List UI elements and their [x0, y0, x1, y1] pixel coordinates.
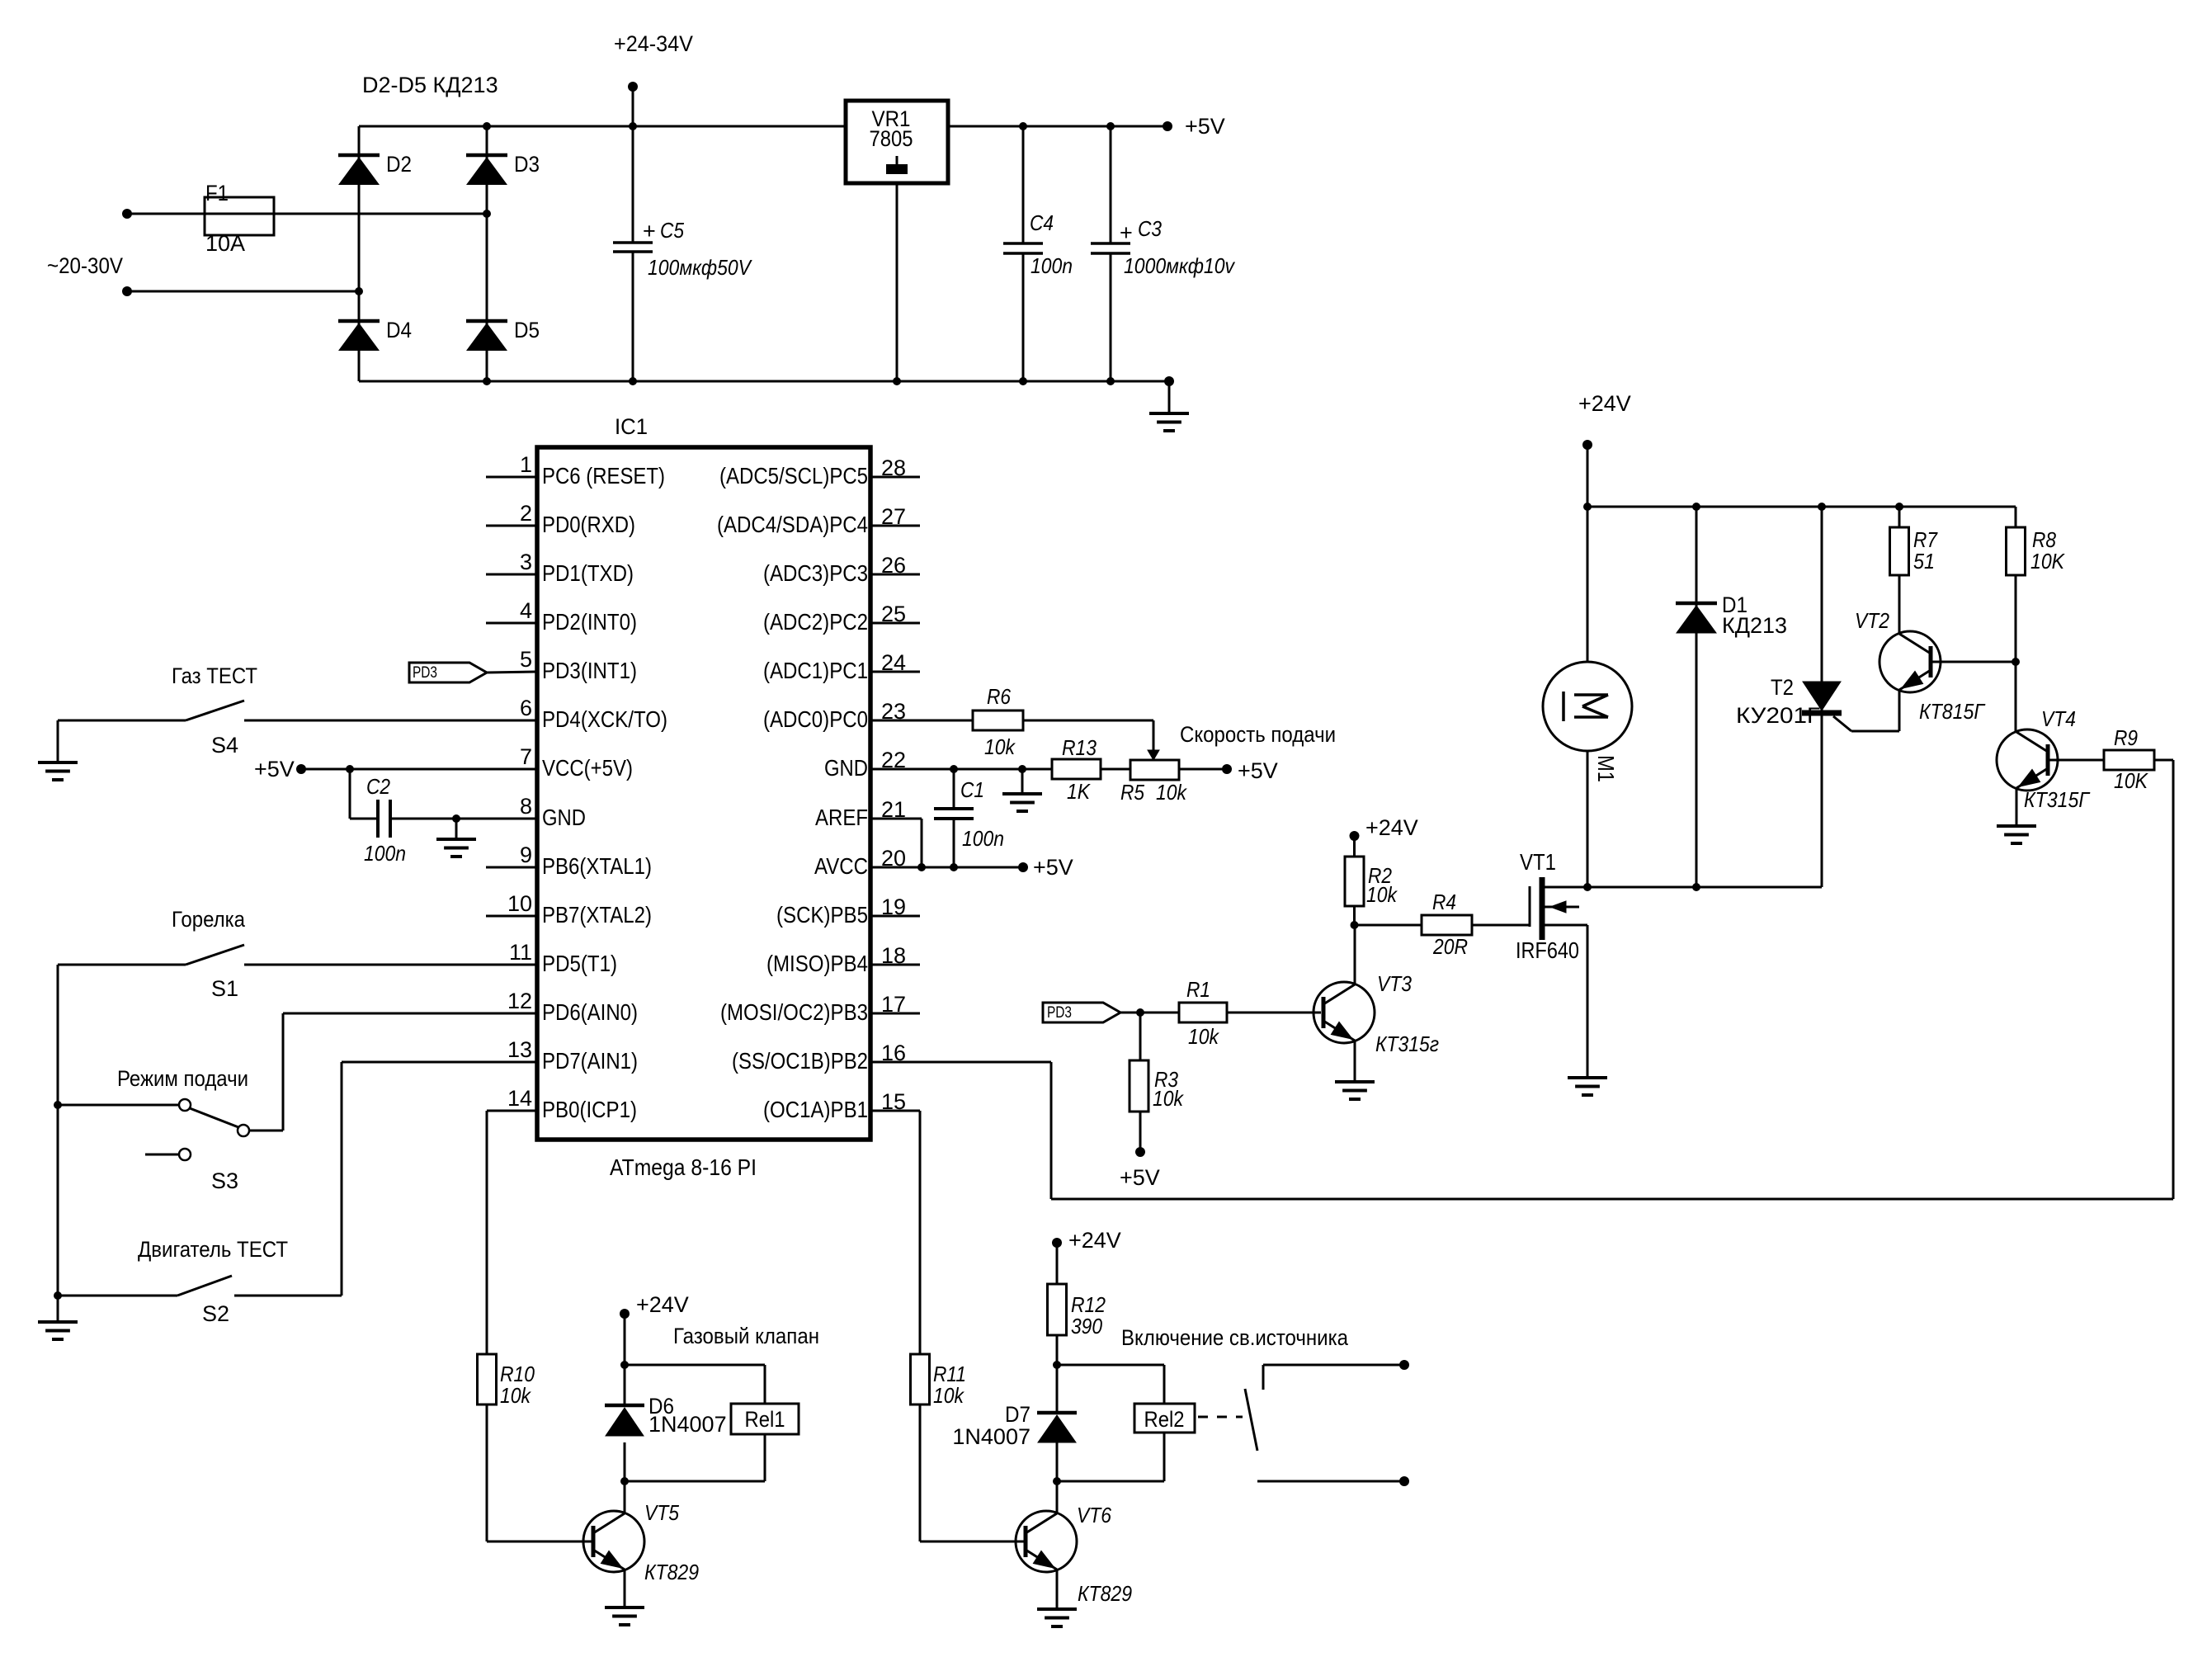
- svg-text:7: 7: [520, 744, 532, 769]
- svg-text:10k: 10k: [1188, 1024, 1220, 1049]
- svg-text:R5: R5: [1120, 780, 1144, 805]
- svg-text:S2: S2: [202, 1301, 229, 1326]
- svg-text:AVCC: AVCC: [814, 853, 868, 879]
- svg-text:10k: 10k: [1153, 1086, 1185, 1111]
- svg-text:F1: F1: [205, 181, 229, 205]
- svg-text:(MOSI/OC2)PB3: (MOSI/OC2)PB3: [720, 999, 868, 1025]
- svg-text:КТ829: КТ829: [1078, 1581, 1132, 1606]
- svg-text:PD2(INT0): PD2(INT0): [542, 609, 637, 635]
- svg-text:+24V: +24V: [1578, 391, 1631, 416]
- svg-text:(ADC1)PC1: (ADC1)PC1: [763, 658, 868, 683]
- svg-text:1: 1: [520, 452, 532, 477]
- svg-text:КТ315Г: КТ315Г: [2024, 787, 2091, 812]
- svg-text:+24-34V: +24-34V: [614, 31, 693, 56]
- svg-text:КУ201Г: КУ201Г: [1736, 703, 1820, 728]
- svg-text:PD3: PD3: [1047, 1004, 1072, 1022]
- svg-text:10k: 10k: [984, 734, 1016, 759]
- svg-text:Rel1: Rel1: [745, 1407, 785, 1432]
- svg-text:51: 51: [1913, 549, 1935, 574]
- svg-text:C1: C1: [960, 777, 984, 802]
- svg-text:VT2: VT2: [1855, 608, 1889, 633]
- svg-text:PD0(RXD): PD0(RXD): [542, 512, 635, 537]
- svg-text:PB6(XTAL1): PB6(XTAL1): [542, 853, 652, 879]
- svg-text:КТ815Г: КТ815Г: [1919, 699, 1986, 724]
- svg-text:AREF: AREF: [815, 805, 868, 830]
- svg-text:PB7(XTAL2): PB7(XTAL2): [542, 902, 652, 928]
- svg-text:КТ829: КТ829: [644, 1560, 699, 1584]
- svg-text:1N4007: 1N4007: [952, 1424, 1031, 1449]
- svg-text:20R: 20R: [1432, 934, 1468, 959]
- svg-text:S4: S4: [211, 733, 238, 758]
- svg-text:C2: C2: [366, 774, 390, 799]
- svg-text:Режим подачи: Режим подачи: [117, 1066, 248, 1091]
- svg-text:(ADC3)PC3: (ADC3)PC3: [763, 560, 868, 586]
- svg-text:4: 4: [520, 598, 532, 623]
- svg-text:C3: C3: [1138, 216, 1162, 241]
- svg-text:(OC1A)PB1: (OC1A)PB1: [763, 1097, 868, 1122]
- svg-text:100n: 100n: [364, 841, 406, 866]
- svg-text:+5V: +5V: [254, 757, 295, 781]
- svg-text:PC6 (RESET): PC6 (RESET): [542, 463, 665, 489]
- svg-text:VT6: VT6: [1077, 1503, 1111, 1527]
- svg-text:PD3: PD3: [413, 664, 437, 682]
- svg-text:390: 390: [1071, 1314, 1102, 1338]
- svg-text:(MISO)PB4: (MISO)PB4: [766, 951, 868, 976]
- svg-text:PD3(INT1): PD3(INT1): [542, 658, 637, 683]
- svg-text:R13: R13: [1062, 735, 1097, 760]
- svg-text:R9: R9: [2114, 725, 2138, 750]
- svg-text:(ADC4/SDA)PC4: (ADC4/SDA)PC4: [717, 512, 868, 537]
- svg-text:10k: 10k: [933, 1383, 965, 1408]
- svg-text:5: 5: [520, 647, 532, 672]
- svg-text:VT3: VT3: [1377, 971, 1412, 996]
- svg-text:M1: M1: [1593, 755, 1619, 782]
- svg-text:D7: D7: [1005, 1402, 1031, 1427]
- svg-text:~20-30V: ~20-30V: [47, 253, 123, 278]
- svg-text:C5: C5: [660, 218, 684, 243]
- svg-text:C4: C4: [1030, 210, 1054, 235]
- svg-text:Газовый клапан: Газовый клапан: [673, 1324, 819, 1348]
- svg-text:1000мкф10v: 1000мкф10v: [1124, 253, 1236, 278]
- svg-text:1N4007: 1N4007: [649, 1412, 727, 1437]
- svg-text:D3: D3: [514, 152, 540, 177]
- svg-text:D5: D5: [514, 318, 540, 342]
- svg-text:+24V: +24V: [636, 1292, 689, 1317]
- svg-text:КТ315г: КТ315г: [1375, 1031, 1439, 1056]
- svg-text:IC1: IC1: [615, 414, 648, 439]
- svg-text:GND: GND: [824, 755, 868, 781]
- svg-text:КД213: КД213: [1722, 613, 1787, 638]
- svg-text:+5V: +5V: [1238, 758, 1278, 783]
- svg-text:+5V: +5V: [1185, 114, 1225, 139]
- svg-text:VT5: VT5: [644, 1500, 679, 1525]
- svg-text:+24V: +24V: [1068, 1228, 1121, 1253]
- svg-text:PD7(AIN1): PD7(AIN1): [542, 1048, 638, 1074]
- svg-text:Rel2: Rel2: [1144, 1407, 1185, 1432]
- svg-text:R4: R4: [1432, 890, 1456, 914]
- svg-text:+24V: +24V: [1365, 815, 1418, 840]
- svg-text:VCC(+5V): VCC(+5V): [542, 755, 633, 781]
- svg-text:Включение св.источника: Включение св.источника: [1121, 1325, 1349, 1350]
- svg-text:PD4(XCK/TO): PD4(XCK/TO): [542, 706, 667, 732]
- svg-text:IRF640: IRF640: [1516, 937, 1579, 963]
- svg-text:PD5(T1): PD5(T1): [542, 951, 617, 976]
- svg-text:S1: S1: [211, 976, 238, 1001]
- svg-text:1K: 1K: [1067, 779, 1091, 804]
- svg-text:S3: S3: [211, 1168, 238, 1193]
- svg-text:R1: R1: [1186, 977, 1210, 1002]
- svg-text:Горелка: Горелка: [172, 907, 246, 932]
- svg-text:T2: T2: [1771, 675, 1794, 700]
- svg-text:PD6(AIN0): PD6(AIN0): [542, 999, 638, 1025]
- svg-text:10k: 10k: [1366, 882, 1398, 907]
- svg-text:(ADC5/SCL)PC5: (ADC5/SCL)PC5: [719, 463, 868, 489]
- svg-text:(SS/OC1B)PB2: (SS/OC1B)PB2: [732, 1048, 868, 1074]
- svg-text:10k: 10k: [1156, 780, 1188, 805]
- svg-text:10A: 10A: [205, 231, 245, 256]
- svg-text:8: 8: [520, 794, 532, 819]
- svg-text:+: +: [1120, 220, 1133, 245]
- svg-text:D2: D2: [386, 152, 412, 177]
- svg-text:11: 11: [509, 940, 532, 965]
- svg-text:3: 3: [520, 550, 532, 574]
- svg-text:R6: R6: [987, 684, 1011, 709]
- svg-text:PB0(ICP1): PB0(ICP1): [542, 1097, 637, 1122]
- svg-text:13: 13: [507, 1037, 532, 1062]
- svg-text:14: 14: [507, 1086, 532, 1111]
- svg-text:D2-D5 КД213: D2-D5 КД213: [362, 73, 498, 97]
- svg-text:(ADC0)PC0: (ADC0)PC0: [763, 706, 868, 732]
- svg-text:12: 12: [507, 989, 532, 1013]
- svg-text:+5V: +5V: [1120, 1165, 1160, 1190]
- svg-text:+: +: [643, 219, 656, 243]
- svg-text:6: 6: [520, 696, 532, 720]
- svg-text:+5V: +5V: [1033, 855, 1073, 880]
- svg-text:10K: 10K: [2030, 549, 2065, 574]
- svg-text:100n: 100n: [1031, 253, 1073, 278]
- svg-text:D4: D4: [386, 318, 412, 342]
- svg-text:Скорость подачи: Скорость подачи: [1180, 722, 1336, 747]
- svg-text:VT4: VT4: [2041, 706, 2076, 731]
- svg-text:PD1(TXD): PD1(TXD): [542, 560, 634, 586]
- svg-text:Двигатель ТЕСТ: Двигатель ТЕСТ: [138, 1237, 288, 1262]
- svg-text:10: 10: [507, 891, 532, 916]
- svg-text:9: 9: [520, 843, 532, 867]
- svg-text:ATmega 8-16 PI: ATmega 8-16 PI: [610, 1154, 757, 1180]
- svg-text:VT1: VT1: [1520, 849, 1556, 875]
- svg-text:100n: 100n: [962, 826, 1004, 851]
- svg-text:Газ ТЕСТ: Газ ТЕСТ: [172, 663, 257, 688]
- svg-text:10k: 10k: [500, 1383, 532, 1408]
- svg-text:2: 2: [520, 501, 532, 526]
- svg-text:GND: GND: [542, 805, 586, 830]
- svg-text:(SCK)PB5: (SCK)PB5: [776, 902, 868, 928]
- svg-text:100мкф50V: 100мкф50V: [648, 255, 752, 280]
- svg-text:7805: 7805: [870, 126, 913, 151]
- svg-text:10K: 10K: [2114, 768, 2148, 793]
- svg-text:(ADC2)PC2: (ADC2)PC2: [763, 609, 868, 635]
